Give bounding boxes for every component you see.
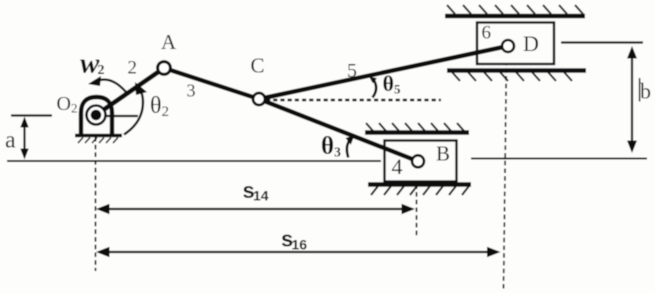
slider block 4	[385, 141, 457, 182]
svg-text:2: 2	[98, 63, 105, 78]
svg-text:14: 14	[253, 188, 269, 204]
svg-text:B: B	[436, 142, 450, 166]
slider 6 top guide rail	[445, 5, 585, 16]
link 3 (A-C-B)	[164, 68, 418, 161]
theta2 horizontal reference from O2	[103, 115, 138, 117]
svg-text:D: D	[523, 31, 539, 56]
theta5 angle arc	[369, 77, 377, 98]
dashed centerline under O2	[95, 137, 97, 271]
dimension s16 arrow	[96, 247, 501, 257]
dimension s14 arrow	[96, 204, 415, 214]
slider block 6	[477, 23, 554, 65]
svg-text:5: 5	[347, 60, 357, 82]
w2 rotation arrow	[88, 76, 126, 92]
dimension a arrow	[20, 117, 28, 160]
pivot O2 bearing	[87, 106, 106, 125]
dimension b arrow	[627, 46, 637, 153]
link 5 (C-D)	[259, 46, 508, 99]
svg-text:2: 2	[128, 58, 138, 79]
svg-text:16: 16	[292, 237, 308, 253]
theta2 angle arc	[124, 82, 147, 135]
slider 4 top guide rail	[365, 123, 469, 133]
dashed centerline under B	[416, 169, 418, 237]
joint D	[502, 40, 514, 52]
svg-text:a: a	[5, 127, 16, 153]
D level reference line	[561, 41, 643, 43]
ground line left	[7, 160, 381, 162]
joint B	[412, 155, 424, 167]
svg-text:b: b	[640, 79, 651, 104]
tick near label b	[639, 78, 641, 102]
svg-text:A: A	[161, 30, 177, 54]
svg-text:6: 6	[482, 23, 492, 44]
theta3 angle arc	[346, 135, 355, 157]
slider 4 bottom guide rail	[368, 185, 471, 196]
dashed centerline under D	[504, 53, 507, 291]
node C dashed horizontal reference	[266, 99, 441, 102]
joint A	[158, 62, 171, 75]
link 2 (crank O2-A)	[96, 68, 164, 115]
svg-text:C: C	[251, 53, 265, 77]
O2 level reference line	[11, 114, 52, 116]
svg-text:4: 4	[392, 154, 403, 179]
slider 6 bottom guide rail	[447, 71, 586, 82]
pivot O2 pedestal	[75, 97, 122, 143]
joint C	[253, 93, 265, 105]
svg-text:3: 3	[187, 81, 196, 101]
ground line right	[471, 158, 647, 160]
